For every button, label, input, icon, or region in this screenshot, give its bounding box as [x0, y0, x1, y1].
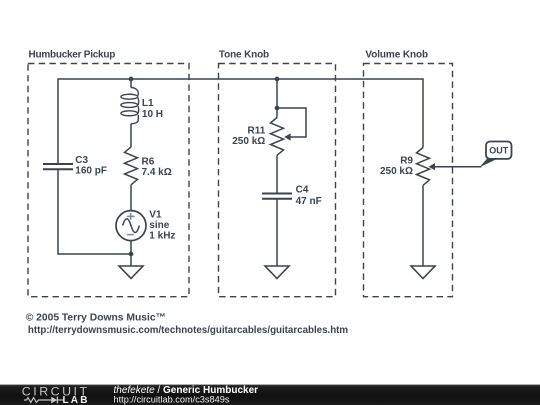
R9 wiper arrowhead — [429, 163, 435, 170]
junction node bottom-left — [129, 252, 134, 257]
R11 wiper arrowhead — [284, 133, 290, 140]
svg-text:C3: C3 — [75, 155, 88, 166]
wire C4 to ground — [276, 199, 278, 266]
wire top rail C3 branch up across to R9 branch — [58, 79, 423, 164]
svg-text:L1: L1 — [142, 98, 154, 109]
enclosure box Tone Knob — [219, 64, 336, 297]
ground volume — [411, 266, 435, 279]
capacitor C4 — [262, 194, 292, 199]
wire R11 to C4 — [276, 155, 278, 193]
svg-text:Tone Knob: Tone Knob — [219, 49, 269, 60]
flag OUT pointer — [480, 159, 498, 167]
ground humbucker — [119, 266, 143, 279]
label R11 value — [232, 126, 265, 148]
svg-text:http://terrydownsmusic.com/tec: http://terrydownsmusic.com/technotes/gui… — [28, 325, 349, 336]
voltage source V1 — [116, 211, 146, 241]
junction node tone top — [275, 77, 280, 82]
wire R11 wiper loop — [277, 108, 306, 137]
V1 plus sign — [127, 213, 135, 220]
label V1 value — [149, 210, 175, 242]
wire C3 bottom to ground rail — [58, 169, 131, 254]
wire V1 to ground node — [130, 241, 132, 266]
svg-text:C4: C4 — [296, 185, 309, 196]
label L1 value — [142, 98, 163, 120]
svg-text:250 kΩ: 250 kΩ — [380, 166, 413, 177]
wire top node to L1 — [130, 79, 132, 88]
wire tone branch down — [276, 79, 278, 118]
wire R6 to V1 — [130, 185, 132, 211]
svg-text:V1: V1 — [149, 210, 162, 221]
resistor R6 — [125, 147, 138, 185]
inductor L1 — [121, 88, 139, 124]
svg-text:sine: sine — [149, 220, 169, 231]
svg-text:R6: R6 — [142, 156, 155, 167]
footer bar — [0, 385, 540, 405]
label C3 value — [75, 155, 107, 177]
svg-text:LAB: LAB — [63, 395, 90, 405]
label R6 value — [142, 156, 172, 177]
svg-text:7.4 kΩ: 7.4 kΩ — [142, 167, 172, 178]
capacitor C3 — [43, 164, 73, 169]
wire R9 wiper to OUT — [435, 166, 482, 168]
svg-text:R11: R11 — [248, 126, 266, 137]
junction node tone wiper — [275, 106, 280, 111]
svg-text:R9: R9 — [400, 156, 413, 167]
svg-text:http://circuitlab.com/c3s849s: http://circuitlab.com/c3s849s — [114, 394, 230, 404]
enclosure box Volume Knob — [364, 64, 453, 297]
enclosure box Humbucker Pickup — [28, 64, 189, 297]
svg-text:1 kHz: 1 kHz — [149, 230, 175, 241]
potentiometer R9 — [417, 148, 430, 186]
svg-text:Volume Knob: Volume Knob — [365, 49, 428, 60]
footer logo diode — [51, 397, 57, 404]
label R9 value — [380, 156, 413, 178]
svg-text:47 nF: 47 nF — [296, 196, 322, 207]
svg-text:© 2005 Terry Downs Music™: © 2005 Terry Downs Music™ — [26, 312, 166, 323]
svg-text:10 H: 10 H — [142, 109, 163, 120]
ground tone — [265, 266, 289, 279]
svg-text:OUT: OUT — [489, 146, 509, 156]
svg-text:Humbucker Pickup: Humbucker Pickup — [29, 49, 116, 60]
svg-text:160 pF: 160 pF — [75, 166, 107, 177]
label C4 value — [296, 185, 322, 207]
V1 minus sign — [127, 234, 134, 236]
svg-text:250 kΩ: 250 kΩ — [232, 136, 265, 147]
wire R9 to ground — [422, 185, 424, 266]
potentiometer R11 — [271, 118, 284, 156]
footer logo resistor squiggle — [24, 398, 51, 403]
flag OUT — [486, 142, 512, 159]
wire L1 to R6 — [130, 124, 132, 147]
junction node top-left — [129, 77, 134, 82]
